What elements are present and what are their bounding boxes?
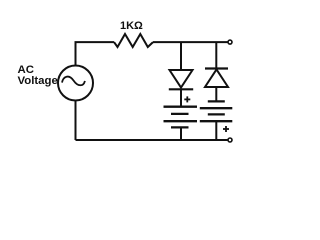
terminal node top-right — [228, 40, 232, 44]
battery C1 plates (long,short,long,short) — [164, 106, 198, 108]
wire left branch drop — [180, 42, 182, 70]
diode D1 (cathode down) triangle — [170, 70, 193, 88]
wire C2 to bottom rail — [215, 121, 217, 140]
wire resistor to top-right terminal — [153, 41, 228, 43]
diode D2 (cathode up) triangle — [205, 70, 228, 88]
terminal node bottom-right — [228, 138, 232, 142]
diode D1 cathode bar — [169, 88, 193, 90]
resistor R1 1KΩ zigzag — [114, 34, 153, 47]
label 1KΩ — [120, 20, 143, 32]
battery C2 plates (short,long,short,long) — [208, 100, 225, 102]
wire C1 to bottom rail — [180, 127, 182, 140]
wire D1 to battery C1 — [180, 89, 182, 106]
diode D2 cathode bar (top) — [205, 67, 228, 69]
battery C1 plus label — [184, 98, 190, 100]
wire D2 to battery C2 — [215, 87, 217, 101]
wire top from source to resistor — [76, 42, 115, 65]
label AC Voltage — [18, 65, 58, 88]
wire left source bottom to bottom rail — [75, 101, 77, 140]
AC source sine wave — [62, 77, 85, 86]
AC source V1 circle — [58, 66, 93, 101]
wire right branch drop — [215, 42, 217, 68]
wire bottom rail — [76, 139, 228, 141]
battery C2 plus label — [223, 128, 229, 130]
